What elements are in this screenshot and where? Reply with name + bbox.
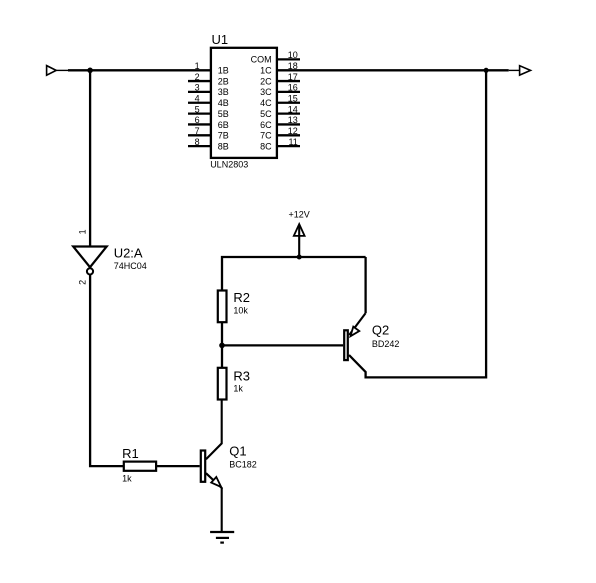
wire U1 pin 18 to output xyxy=(277,69,509,71)
U1 left pin stubs 2-8 xyxy=(188,81,211,146)
svg-text:5: 5 xyxy=(195,104,200,114)
ground symbol xyxy=(210,532,234,543)
svg-text:2: 2 xyxy=(77,280,87,285)
svg-text:+12V: +12V xyxy=(289,209,310,219)
svg-text:13: 13 xyxy=(288,115,298,125)
svg-text:4C: 4C xyxy=(260,98,272,108)
svg-text:ULN2803: ULN2803 xyxy=(210,160,248,170)
svg-text:8B: 8B xyxy=(218,141,229,151)
svg-text:U2:A: U2:A xyxy=(114,245,143,260)
transistor Q1 base bar xyxy=(201,451,205,482)
U1 left pin names 1B-8B xyxy=(218,66,229,152)
Q1 emitter wire with arrow down to ground xyxy=(206,473,222,531)
svg-text:16: 16 xyxy=(288,83,298,93)
svg-text:17: 17 xyxy=(288,72,298,82)
Q1 collector wire up to R3 xyxy=(206,400,222,460)
svg-text:COM: COM xyxy=(251,55,272,65)
Q2 emitter wire from +12V rail with arrow xyxy=(364,257,366,313)
IC U1 body xyxy=(211,48,277,158)
wire junction down to inverter input xyxy=(89,70,91,246)
transistor Q2 base bar xyxy=(344,330,348,360)
svg-text:1k: 1k xyxy=(233,383,243,393)
resistor R2 xyxy=(218,291,227,323)
svg-text:12: 12 xyxy=(288,126,298,136)
svg-text:2B: 2B xyxy=(218,76,229,86)
node junction at input xyxy=(87,68,93,74)
svg-text:6: 6 xyxy=(195,115,200,125)
power +12V symbol xyxy=(294,224,305,257)
svg-text:6B: 6B xyxy=(218,120,229,130)
node junction at output xyxy=(484,68,489,73)
input terminal arrow (left) xyxy=(47,66,69,76)
svg-text:8: 8 xyxy=(195,137,200,147)
U1 right pin stubs 10,17-11 xyxy=(277,59,300,146)
U1 left pin numbers 1-8 xyxy=(195,61,200,147)
wire inverter output down and right to R1 xyxy=(90,275,124,466)
svg-text:1C: 1C xyxy=(260,66,272,76)
wire R2 top to +12V rail xyxy=(222,257,366,291)
output terminal arrow (right) xyxy=(509,66,531,75)
svg-text:1: 1 xyxy=(77,229,87,234)
svg-text:4: 4 xyxy=(195,93,200,103)
U1 right pin numbers xyxy=(288,50,298,147)
wire junction to Q2 base xyxy=(222,344,343,346)
svg-text:BD242: BD242 xyxy=(372,339,400,349)
svg-text:5B: 5B xyxy=(218,109,229,119)
svg-text:1k: 1k xyxy=(122,474,132,484)
svg-text:7B: 7B xyxy=(218,131,229,141)
svg-text:4B: 4B xyxy=(218,98,229,108)
svg-text:10: 10 xyxy=(288,50,298,60)
svg-text:2C: 2C xyxy=(260,76,272,86)
svg-text:2: 2 xyxy=(195,72,200,82)
svg-text:7C: 7C xyxy=(260,131,272,141)
svg-text:R1: R1 xyxy=(122,446,139,461)
svg-text:1: 1 xyxy=(195,61,200,71)
svg-text:Q2: Q2 xyxy=(372,322,389,337)
wire R3 top through junction to R2 bottom xyxy=(221,322,223,368)
U1 right pin names COM,1C-8C xyxy=(251,55,272,152)
wire input to U1 pin 1 xyxy=(68,69,211,71)
inverter U2:A (74HC04) pointing down xyxy=(73,247,107,275)
svg-text:14: 14 xyxy=(288,104,298,114)
svg-text:7: 7 xyxy=(195,126,200,136)
svg-text:6C: 6C xyxy=(260,120,272,130)
node junction R2/R3/Q2 base xyxy=(219,343,225,349)
svg-text:3B: 3B xyxy=(218,87,229,97)
svg-text:10k: 10k xyxy=(233,306,248,316)
Q2 collector wire down and right xyxy=(349,70,486,377)
svg-text:3: 3 xyxy=(195,83,200,93)
svg-text:5C: 5C xyxy=(260,109,272,119)
wire R1 to Q1 base xyxy=(156,465,200,467)
svg-text:BC182: BC182 xyxy=(229,460,257,470)
resistor R3 xyxy=(218,368,227,400)
svg-text:15: 15 xyxy=(288,93,298,103)
svg-text:U1: U1 xyxy=(212,32,229,47)
svg-text:74HC04: 74HC04 xyxy=(114,261,147,271)
svg-text:1B: 1B xyxy=(218,66,229,76)
svg-text:3C: 3C xyxy=(260,87,272,97)
node junction at +12V xyxy=(297,255,302,260)
svg-text:R2: R2 xyxy=(233,290,250,305)
svg-text:R3: R3 xyxy=(233,368,250,383)
svg-text:8C: 8C xyxy=(260,141,272,151)
svg-text:Q1: Q1 xyxy=(229,443,246,458)
svg-text:11: 11 xyxy=(288,137,297,147)
resistor R1 xyxy=(124,462,156,471)
